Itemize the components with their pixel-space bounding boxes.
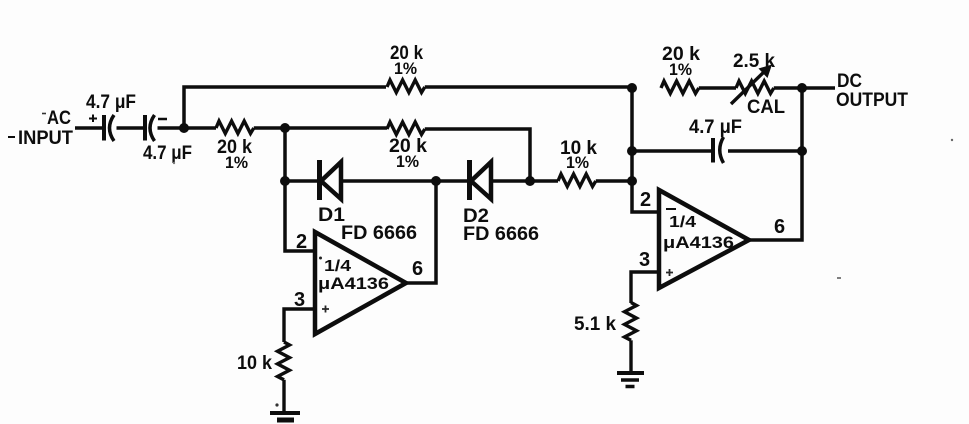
node E junction dot (525, 176, 535, 186)
wire D1 to node D (341, 179, 469, 182)
stray speck above input node (173, 162, 175, 164)
wire R6 to potentiometer (699, 86, 736, 89)
wire R5 to ground (282, 380, 285, 412)
svg-text:AC: AC (47, 108, 71, 129)
svg-text:CAL: CAL (747, 97, 785, 118)
svg-text:3: 3 (639, 249, 650, 271)
svg-text:FD 6666: FD 6666 (341, 223, 417, 244)
wire between capacitors (117, 126, 144, 129)
svg-text:10 k: 10 k (237, 353, 272, 374)
op-amp U2 1/4 uA4136 (659, 190, 749, 288)
node C junction dot diode line (627, 176, 637, 186)
svg-text:2: 2 (296, 231, 307, 253)
svg-text:1%: 1% (396, 152, 419, 171)
wire node B down to pin 2 of U1 (285, 128, 315, 251)
resistor R5 10k vertical (278, 342, 290, 380)
wire pin 3 of U1 to resistor R5 (284, 309, 315, 342)
minus mark at pin 2 (U2) (666, 208, 676, 210)
svg-text:DC: DC (837, 71, 862, 92)
svg-text:FD 6666: FD 6666 (463, 224, 539, 245)
node F junction dot cap line right (797, 146, 807, 156)
svg-text:4.7 μF: 4.7 μF (689, 117, 742, 138)
svg-text:1/4: 1/4 (324, 258, 351, 275)
svg-text:6: 6 (774, 216, 785, 238)
wire cap to node A (158, 126, 217, 129)
wire pin 3 of U2 to resistor R8 (631, 272, 659, 303)
stray dash left of INPUT (8, 136, 15, 138)
resistor R3 20k second feedback (387, 122, 425, 135)
svg-text:INPUT: INPUT (18, 128, 73, 149)
wire R4 to node C (596, 179, 632, 182)
wire D2 to node E (491, 179, 558, 182)
arrow head of potentiometer R7 (759, 65, 773, 79)
wire diode line left segment (285, 179, 318, 182)
svg-text:2.5 k: 2.5 k (733, 51, 775, 72)
node B junction dot (280, 123, 290, 133)
svg-text:4.7 μF: 4.7 μF (86, 92, 136, 113)
label + polarity C1 (89, 115, 97, 123)
ground G2 (617, 373, 644, 387)
node C junction dot cap line (627, 146, 637, 156)
wire node C vertical to pin 2 of U2 (632, 87, 659, 212)
capacitor C3 4.7uF (713, 137, 724, 163)
wire AC input lead (75, 126, 102, 129)
svg-text:μA4136: μA4136 (318, 274, 389, 293)
stray speck right of schematic (837, 277, 841, 279)
label - polarity C2 (158, 118, 167, 121)
svg-text:1/4: 1/4 (669, 214, 696, 231)
node F junction dot output top (797, 83, 807, 93)
resistor R1 20k input (216, 121, 254, 134)
minus speck at pin 2 (U1) (319, 257, 322, 260)
plus mark at pin 3 (U2) (666, 269, 673, 276)
svg-text:4.7 μF: 4.7 μF (143, 143, 192, 164)
wire pot to output node (774, 86, 835, 89)
svg-text:1%: 1% (394, 59, 417, 78)
op-amp U1 1/4 uA4136 (315, 232, 406, 334)
wire R8 to ground (629, 340, 632, 372)
resistor R6 20k output (661, 81, 699, 94)
ground G1 (270, 413, 300, 420)
node junction dot diode line left (280, 176, 290, 186)
node A junction dot (179, 123, 189, 133)
wire R3 right end down to diode line (425, 129, 530, 181)
diode D2 FD 6666 (470, 160, 492, 200)
svg-text:2: 2 (640, 189, 651, 211)
wire top line R2 to node C (425, 85, 632, 88)
wire U1 output up to diode line (406, 181, 436, 283)
svg-text:1%: 1% (225, 153, 248, 172)
diode D1 FD 6666 (320, 160, 342, 200)
wire cap feedback line right (728, 149, 802, 152)
wire R1 to node B (254, 126, 387, 129)
potentiometer R7 2.5k CAL (731, 69, 774, 104)
resistor R4 10k (558, 174, 596, 187)
node C junction dot top line (627, 83, 637, 93)
svg-text:6: 6 (412, 258, 423, 280)
resistor R2 20k top feedback (387, 80, 425, 93)
wire node A up to top feedback line (184, 87, 386, 128)
wire U2 output up to output node (749, 88, 802, 240)
svg-text:OUTPUT: OUTPUT (836, 90, 908, 111)
resistor R8 5.1k vertical (625, 303, 637, 341)
stray speck dot near ground G1 (275, 403, 278, 406)
svg-text:1%: 1% (669, 60, 692, 79)
capacitor C2 4.7uF (145, 115, 155, 141)
svg-text:μA4136: μA4136 (663, 233, 734, 252)
wire cap feedback line left (632, 149, 711, 152)
node D junction dot (U1 output joins) (431, 176, 441, 186)
stray dash before AC (42, 113, 46, 115)
svg-text:5.1 k: 5.1 k (574, 314, 616, 335)
stray speck top right (951, 139, 953, 141)
svg-text:1%: 1% (566, 153, 589, 172)
capacitor C1 4.7uF (104, 115, 114, 141)
plus mark at pin 3 (U1) (322, 306, 329, 313)
